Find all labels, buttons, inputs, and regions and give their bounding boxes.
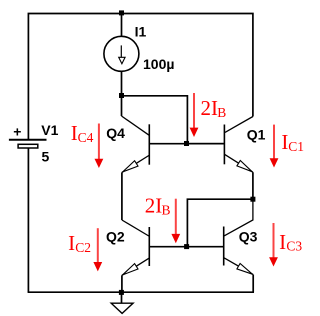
red arrow IC2: [93, 228, 102, 271]
wire: Q1 emitter to node B: [252, 172, 254, 199]
svg-text:I: I: [279, 230, 286, 254]
transistor Q2 base bar: [148, 227, 150, 266]
node dot: node B right: [250, 197, 255, 202]
wire: I1 circle to node A: [121, 71, 123, 96]
node dot: node A: [119, 93, 124, 98]
wire: mid rail from vertical branch to right column: [187, 199, 253, 247]
wire: Q3 emitter to bottom rail: [252, 275, 254, 293]
transistor Q2 emitter open arrowhead: [123, 264, 138, 275]
svg-text:B: B: [162, 202, 171, 217]
svg-text:V1: V1: [41, 122, 58, 138]
wire: bottom rail: [28, 291, 254, 293]
wire: base rail to Q1 bar: [187, 143, 225, 145]
wire: top rail to I1 circle: [121, 14, 123, 37]
current source I1 circle: [104, 36, 139, 71]
wire: bottom base rail Q2-Q3: [149, 246, 223, 248]
red arrow IC1: [270, 125, 279, 168]
red arrow IC4: [95, 124, 104, 169]
node dot: bottom base rail: [184, 244, 189, 249]
svg-text:2I: 2I: [201, 96, 219, 120]
current source I1 arrow shaft: [120, 45, 122, 57]
red arrow IC3: [269, 223, 278, 267]
ground stub: [121, 292, 123, 303]
wire: top rail + left wire + right wire down to Q1 collector corner: [28, 14, 253, 140]
wire: node A right then down to base rail (2IB branch): [122, 96, 188, 144]
battery V1 top plate: [9, 139, 47, 141]
svg-text:C1: C1: [288, 139, 304, 154]
svg-text:5: 5: [42, 149, 50, 165]
svg-text:I1: I1: [135, 23, 147, 39]
transistor Q3 emitter diagonal: [224, 258, 253, 275]
red arrow 2IB bottom: [171, 199, 180, 244]
svg-text:Q4: Q4: [106, 125, 125, 141]
node dot: ground node: [119, 290, 124, 295]
svg-text:C4: C4: [78, 130, 94, 145]
wire: Q4 emitter to Q2 collector: [121, 172, 123, 220]
wire: node A to Q4 collector corner: [121, 96, 123, 116]
transistor Q4 base bar: [148, 124, 150, 164]
wire: Q2 emitter to bottom rail: [121, 275, 123, 292]
svg-text:Q1: Q1: [247, 126, 266, 142]
transistor Q4 emitter diagonal: [122, 155, 150, 172]
svg-text:+: +: [13, 124, 21, 140]
transistor Q1 emitter diagonal: [225, 154, 253, 172]
svg-text:100µ: 100µ: [143, 56, 174, 72]
transistor Q4 emitter open arrowhead: [123, 161, 138, 172]
node dot: top rail / I1: [119, 10, 124, 15]
svg-text:I: I: [68, 231, 75, 255]
transistor Q1 emitter open arrowhead: [237, 161, 252, 172]
transistor Q3 collector diagonal: [224, 199, 253, 236]
transistor Q2 emitter diagonal: [122, 258, 150, 276]
red arrow 2IB top: [190, 93, 199, 137]
wire: top base rail Q4-Q1: [149, 143, 224, 145]
ground: [111, 303, 133, 313]
svg-text:C2: C2: [75, 240, 91, 255]
svg-text:Q3: Q3: [239, 229, 258, 245]
node dot: top base rail: [184, 141, 189, 146]
svg-text:C3: C3: [286, 239, 302, 254]
transistor Q2 collector diagonal: [122, 220, 149, 236]
transistor Q3 emitter open arrowhead: [237, 264, 253, 275]
transistor Q1 collector diagonal: [225, 117, 253, 133]
transistor Q1 base bar: [223, 125, 225, 165]
wire: battery to bottom rail: [27, 148, 29, 292]
svg-text:Q2: Q2: [106, 228, 125, 244]
current source I1 open arrowhead: [119, 57, 125, 64]
svg-text:B: B: [217, 105, 226, 120]
battery V1 bottom plate: [18, 144, 38, 148]
transistor Q4 collector diagonal: [122, 116, 150, 135]
transistor Q3 base bar: [223, 227, 225, 266]
svg-text:2I: 2I: [145, 194, 163, 218]
